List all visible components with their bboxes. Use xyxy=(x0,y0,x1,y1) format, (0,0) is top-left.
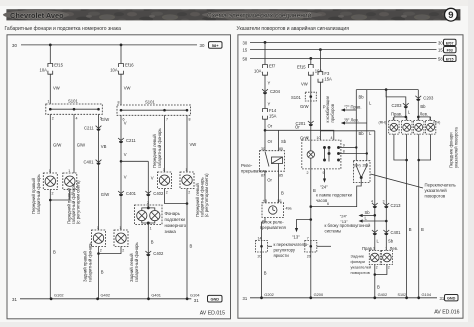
label to alarm unit xyxy=(325,223,372,234)
lamp front turn 1 xyxy=(389,117,399,134)
labels Prav Lev front xyxy=(379,111,441,124)
front turn lamp feed bar right xyxy=(418,116,431,118)
arrow to alarm unit L xyxy=(340,216,386,224)
wire S101 pin5 down, label G/W xyxy=(99,114,110,230)
junction lamp E1/E2 merge xyxy=(49,199,52,202)
wire S101 pin2 to lamp E1, label G/W xyxy=(50,114,61,173)
wire S101 pin6 down, label V xyxy=(121,115,127,230)
junction on bus30 at fuse Ef15 xyxy=(49,44,52,47)
page number badge 9 xyxy=(445,8,458,21)
wire fuse Ef15 to S101 pin1, label VW xyxy=(50,74,59,104)
wire S402 to ground, label B xyxy=(262,252,267,298)
junction common return xyxy=(310,205,313,208)
lamp front right 1 xyxy=(43,169,57,196)
wire fuse to splice S101, label VW xyxy=(301,75,311,92)
labels L Sb rear xyxy=(362,239,398,251)
junction S101R c xyxy=(186,109,189,112)
wire S101 pin7 to front left lamp1 xyxy=(164,115,166,172)
fuse Ef16 xyxy=(110,63,134,75)
connector C213 pair xyxy=(371,199,401,208)
junction S101R a xyxy=(120,109,123,112)
splice S402 box xyxy=(256,237,273,259)
panel border xyxy=(238,35,463,318)
front turn lamp feed bar left xyxy=(394,116,407,118)
ground junction G402 right panel xyxy=(373,292,387,299)
connector C402 lower xyxy=(145,251,164,256)
label front left lamp text xyxy=(152,127,162,168)
wire front lamp3 to ground, label B xyxy=(419,134,424,298)
rear feed column right xyxy=(385,90,387,251)
turn signal switch box xyxy=(353,161,370,183)
wire S101 pin8 to front left lamp2, label VW xyxy=(187,115,196,172)
junction front left merge xyxy=(186,202,189,205)
label front right lamp text xyxy=(31,173,41,214)
junction Bb column xyxy=(355,146,357,148)
splice S101 small box xyxy=(291,92,316,101)
terminal box bus15 xyxy=(444,47,457,53)
wire hazard to Bb column xyxy=(341,147,356,149)
wire lamp E2 down and left xyxy=(50,190,70,201)
splice S101 left box xyxy=(46,99,103,121)
junction rear lamps merge xyxy=(97,252,100,255)
ground junction G402 xyxy=(96,293,110,301)
wire front left lamp1 merge xyxy=(165,189,188,204)
splice S202 box xyxy=(305,237,317,259)
junction S101R b xyxy=(163,109,166,112)
junction front left pair merge xyxy=(405,159,408,162)
lamp front left 2 xyxy=(180,168,194,195)
hazard switch box xyxy=(302,136,345,175)
arrow to cluster right xyxy=(341,105,362,112)
lamp front left 1 xyxy=(158,168,172,195)
junction bus30 Ef7 xyxy=(264,41,267,44)
lamp front turn 4 xyxy=(425,117,435,134)
fuse Ef15 xyxy=(40,63,64,75)
wire L column xyxy=(367,90,372,161)
wire relay pin87 down xyxy=(265,171,273,203)
junction feed bar right xyxy=(417,116,420,119)
wire fuse Ef7 to C204, label Y xyxy=(265,75,271,108)
bus 58 xyxy=(250,57,437,59)
splice S101 right box xyxy=(117,100,191,122)
ground junction G200 xyxy=(309,292,324,299)
fuse F3 xyxy=(318,71,332,82)
terminal box bus58 xyxy=(444,55,457,61)
junction arrow L xyxy=(385,220,388,223)
ground junction G102 xyxy=(50,293,64,301)
arrow to alarm unit Sb xyxy=(340,210,375,218)
wire switch common return xyxy=(311,183,361,207)
label to clock illumination xyxy=(316,193,353,204)
license plate lamps box xyxy=(135,201,163,231)
junction S101 small xyxy=(310,95,313,98)
connector C211 on rear right wire xyxy=(84,126,101,131)
wire F3 to hazard pin10, label P xyxy=(320,82,325,140)
wire C203 right column xyxy=(418,90,426,117)
wire bar to lamp f1 xyxy=(394,117,431,121)
wire Or horizontal to hazard switch xyxy=(265,125,334,141)
label rear right lamp text xyxy=(83,241,93,282)
fuse Ef7 xyxy=(254,64,276,76)
ground box GND right xyxy=(445,295,459,301)
vertical text to instrument cluster xyxy=(325,95,335,122)
junction license split xyxy=(120,160,123,163)
bus 15 xyxy=(250,49,437,51)
wire lamp E1 to ground bus, label B xyxy=(50,190,56,299)
wire bus30 to fuse Ef15 xyxy=(49,45,51,64)
connector C203 left xyxy=(392,103,411,115)
callout line to switch label xyxy=(371,174,424,188)
wire front left lamp2 to ground, label B xyxy=(187,189,193,299)
wire bus58 to fuse Ef15 xyxy=(310,58,312,64)
wire branch to relay pin 85, label Sb xyxy=(279,130,287,150)
connector C203 right xyxy=(415,96,434,101)
wire S101 to C201, label GrW xyxy=(300,101,311,141)
label front right lamp 2 text xyxy=(67,180,81,224)
wire F14 to relay, label Or xyxy=(265,119,273,151)
wire rear left lamp merge xyxy=(99,247,122,254)
lamp rear turn right xyxy=(381,247,392,270)
relay flasher box xyxy=(260,147,285,178)
bus 30 xyxy=(250,41,437,43)
fuse F14 xyxy=(263,108,277,119)
wire bus15 to fuse F3 xyxy=(319,50,321,72)
wire front lamp1 merge xyxy=(394,134,407,160)
ground junction G401 xyxy=(147,293,161,301)
junction rear merge xyxy=(374,273,377,276)
bus 31 bottom xyxy=(20,298,191,300)
wire front lamp2 to ground, label B xyxy=(407,134,412,298)
rear feed column left xyxy=(374,131,376,251)
arrow to clock lamp xyxy=(320,169,328,190)
wire front lamp4 merge xyxy=(419,134,431,160)
lamp rear left xyxy=(114,226,128,253)
front lamps feed horizontal xyxy=(356,89,418,91)
lamp front turn 3 xyxy=(414,117,424,134)
ground junction G202 xyxy=(260,292,274,299)
junction arrow Sb xyxy=(374,214,377,217)
wire bus30 to fuse Ef7 xyxy=(264,42,266,64)
label flasher relay xyxy=(241,163,268,174)
connector C401 on rear right wire xyxy=(84,160,102,165)
arrow to cluster left xyxy=(341,118,367,125)
junction S402 xyxy=(260,245,263,248)
junction L column xyxy=(366,152,368,154)
label rear turn lamps xyxy=(351,254,372,276)
connector C401 pair rear xyxy=(372,230,401,235)
label front turn lamps vertical xyxy=(449,127,459,168)
connector C201 xyxy=(296,121,314,126)
ground junction G104 right xyxy=(417,292,432,299)
connector C211 on left wire xyxy=(118,138,136,143)
panel border xyxy=(7,35,231,319)
junction S202 xyxy=(310,245,313,248)
terminal box 58 xyxy=(209,42,223,49)
label rear left lamp text xyxy=(129,241,139,282)
wire F3 branch to rear feed xyxy=(320,130,374,132)
junction front feed xyxy=(385,88,388,91)
wire clock to splice S402 xyxy=(262,218,266,241)
junction bus15 F3 xyxy=(319,48,322,51)
label front left lamp 2 text xyxy=(195,173,209,217)
wire license column xyxy=(148,161,154,206)
wire license lamp down, label B xyxy=(148,225,154,299)
ground junction S102 xyxy=(398,293,409,299)
ground junction G104 xyxy=(186,293,201,301)
label to dimmer switch xyxy=(274,242,310,258)
wire split to license column xyxy=(121,160,148,162)
fuse Ef15 right panel xyxy=(297,65,322,76)
junction arrow13 xyxy=(310,218,313,221)
wire bus30 to fuse Ef16 xyxy=(120,45,122,64)
ground box GND xyxy=(208,295,223,302)
junction feed bar left xyxy=(405,116,408,119)
wire splice stub right xyxy=(317,245,331,247)
junction S101L c xyxy=(97,108,100,111)
connector C401 on rear left wire xyxy=(118,191,137,196)
connector C204 xyxy=(262,89,281,94)
label license lamp text xyxy=(165,211,187,234)
header bar xyxy=(3,8,460,21)
junction S101L b xyxy=(73,108,76,111)
junction on bus30 at fuse Ef16 xyxy=(120,44,123,47)
wire jog to C203 left xyxy=(386,90,406,117)
lamp front right 2 xyxy=(63,169,77,196)
bus 31 bottom xyxy=(250,297,437,299)
junction front right pair merge xyxy=(417,159,420,162)
label clock unit xyxy=(260,220,287,231)
arrow 13 branch xyxy=(292,220,311,240)
connector C402 on license wire xyxy=(145,191,164,196)
wire hazard pin2 down xyxy=(311,169,316,298)
label turn signal switch xyxy=(425,183,457,199)
wire Bb column xyxy=(356,90,364,161)
wire hazard to L column xyxy=(341,153,367,155)
clock unit box xyxy=(262,199,292,218)
wire S101 pin4 to lamp E2, label G/W xyxy=(74,114,85,173)
lamp rear turn left xyxy=(369,247,380,270)
wire rear lamp right merge xyxy=(375,265,387,275)
terminal box bus30 xyxy=(444,39,457,45)
wire rear right lamp to ground xyxy=(99,247,104,299)
junction S101L a xyxy=(49,108,52,111)
lamp rear right xyxy=(92,226,106,253)
lamp front turn 2 xyxy=(402,117,412,134)
bus 30 top xyxy=(21,44,197,46)
wire fuse Ef16 to S101 pin8, label VW xyxy=(121,74,130,105)
wire rear lamp left to ground, label B xyxy=(375,265,380,298)
wire relay pin85 down, label B xyxy=(279,171,285,203)
junction bus58 hazard feed xyxy=(309,57,312,60)
junction Or split xyxy=(264,129,267,132)
